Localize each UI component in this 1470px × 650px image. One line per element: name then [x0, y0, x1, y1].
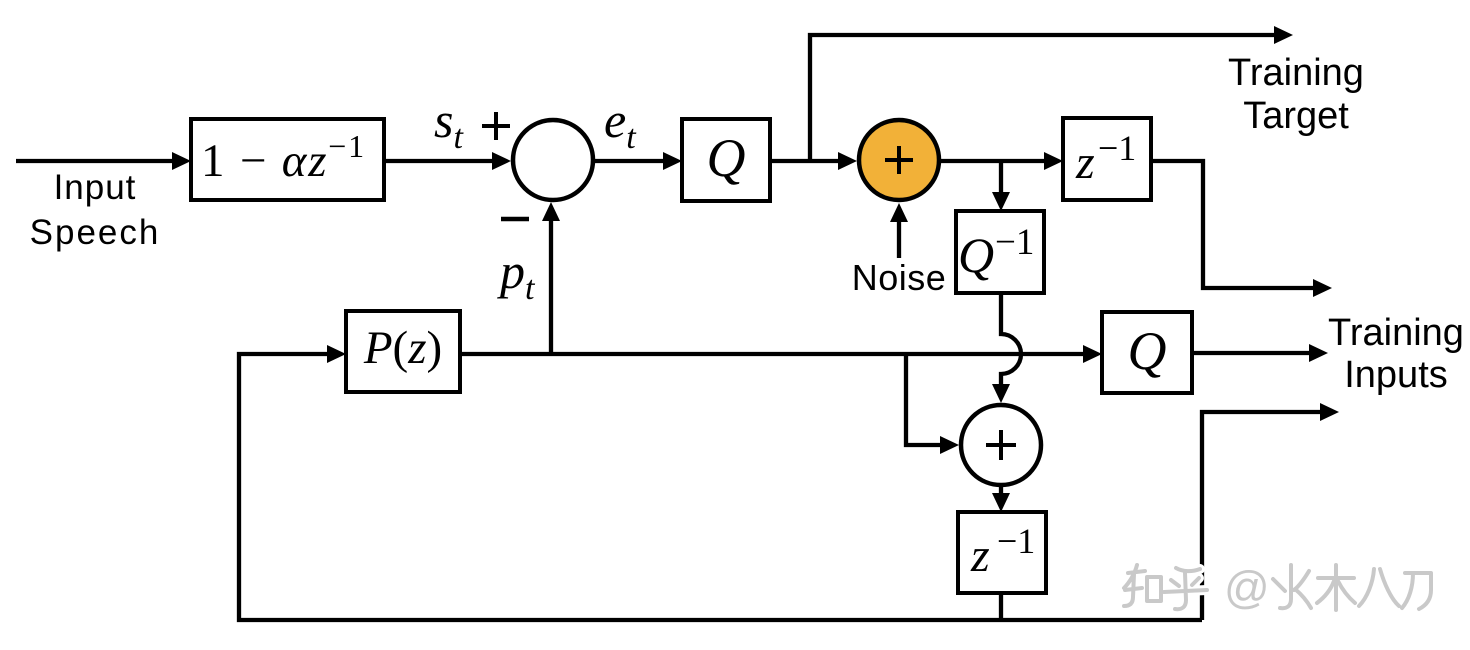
wire Q1 to adder	[770, 152, 857, 170]
svg-text:Q: Q	[1128, 321, 1167, 381]
wire P(z) output to Q2	[460, 345, 1102, 363]
svg-text:−1: −1	[997, 521, 1035, 561]
svg-text:Noise: Noise	[852, 257, 947, 298]
adder A2 white	[961, 405, 1041, 485]
branch wire down into Q-inverse	[992, 161, 1010, 211]
svg-text:P(z): P(z)	[363, 322, 442, 374]
shui	[1273, 565, 1311, 608]
noise arrow into adder	[890, 203, 908, 258]
svg-text:z: z	[1075, 136, 1095, 189]
watermark zhihu @shuimubadao	[1124, 565, 1207, 609]
svg-text:−1: −1	[1098, 128, 1136, 168]
wire filter to summing node	[385, 152, 511, 170]
wire bottom feedback up to training inputs arrow	[1202, 403, 1339, 620]
wire Q2 to training inputs	[1192, 344, 1328, 362]
svg-text:z: z	[970, 529, 990, 582]
svg-text:@: @	[1224, 562, 1270, 613]
dao	[1402, 573, 1431, 609]
svg-text:Input: Input	[54, 168, 137, 207]
inverse quantizer box Q-1	[956, 211, 1044, 293]
wire z-1 to second training target output	[1151, 161, 1313, 288]
svg-text:Q: Q	[707, 128, 746, 188]
branch wire from P(z) output into adder A2	[906, 354, 959, 454]
filter box 1-alpha z^-1	[191, 119, 384, 200]
svg-text:Target: Target	[1243, 95, 1349, 137]
wire summing node to Q1	[595, 152, 682, 170]
svg-text:Training: Training	[1228, 52, 1364, 94]
svg-text:Speech: Speech	[30, 213, 161, 252]
feedback wire bottom line into P(z)	[239, 345, 1202, 620]
svg-text:Training: Training	[1328, 312, 1464, 354]
predictor box P(z)	[346, 311, 460, 392]
wire input arrow into filter	[16, 152, 191, 170]
branch wire p_t up into summing node S1	[542, 202, 560, 354]
wire Q-1 down with hop over horizontal wire, into adder A2	[992, 293, 1021, 403]
delay box z-1 top	[1063, 118, 1151, 200]
ba	[1359, 569, 1399, 606]
delay box z-1 bottom	[958, 512, 1046, 593]
quantizer box Q2	[1102, 312, 1192, 393]
wire z-1 bottom down to feedback line	[999, 593, 1003, 620]
wire adder to z-1 top	[941, 152, 1063, 170]
label minus sign	[501, 217, 529, 222]
adder A1 orange	[859, 120, 939, 200]
mu	[1317, 565, 1355, 610]
summing junction S1	[513, 120, 593, 200]
svg-text:−1: −1	[995, 222, 1034, 263]
label plus sign	[482, 112, 510, 140]
branch wire up to training target	[810, 35, 1274, 161]
wire adder A2 down into z-1 bottom	[992, 487, 1010, 512]
svg-text:Q: Q	[958, 227, 994, 283]
svg-text:Inputs: Inputs	[1344, 354, 1448, 396]
quantizer box Q1	[682, 119, 770, 201]
